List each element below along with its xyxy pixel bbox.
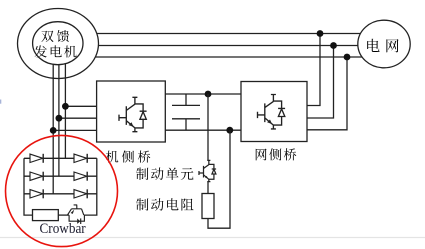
label 网侧桥 (256, 148, 297, 160)
wire DC bus negative (165, 129, 241, 131)
wire rotor branch to machine box 1 (65, 105, 96, 107)
resistor crowbar R (33, 210, 59, 221)
node rotor junction 1 (62, 103, 69, 110)
wire crowbar row 1 (24, 157, 97, 159)
generator G1 outer circle (18, 9, 99, 79)
diode D5 (30, 190, 43, 198)
transistor brake IGBT 制动单元 (199, 160, 216, 181)
resistor brake R (202, 194, 214, 219)
decorative edge mark (0, 100, 1, 104)
wire stator phase B (90, 45, 384, 47)
wire rotor phase 2 (58, 52, 60, 176)
wire DC+ to brake IGBT (207, 94, 209, 161)
converter machine-side box (97, 81, 166, 142)
label 电网 (367, 39, 398, 53)
label 机侧桥 (106, 150, 150, 162)
capacitor C1 (172, 94, 200, 130)
wire DC bus positive (165, 93, 241, 95)
diode D6 (74, 190, 87, 198)
node rotor junction 2 (56, 115, 63, 122)
generator G1 inner circle (33, 22, 83, 65)
diode D4 (74, 172, 87, 180)
wire resistor to switch (58, 214, 69, 216)
wire rotor branch to machine box 2 (59, 117, 97, 119)
wire resistor to DC- (208, 130, 230, 228)
node DC- junction (226, 127, 233, 134)
converter grid-side box (241, 82, 307, 142)
thyristor crowbar switch (67, 205, 84, 224)
node DC+ junction (205, 91, 212, 98)
wire brake IGBT to resistor (207, 182, 209, 194)
label 制动电阻 (136, 198, 194, 211)
wire crowbar row 2 (24, 175, 97, 177)
wire grid-converter phase C (307, 57, 347, 130)
node junction C (344, 54, 351, 61)
svg-text:Crowbar: Crowbar (40, 221, 86, 237)
diode D3 (30, 172, 43, 180)
transistor IGBT machine-side bridge (119, 97, 147, 131)
wire crowbar right rail (84, 158, 97, 215)
wire stator phase A (90, 33, 384, 35)
node rotor junction 3 (50, 127, 57, 134)
label generator 双馈发电机 (35, 30, 77, 58)
wire rotor branch to machine box 3 (53, 129, 96, 131)
diode D1 (30, 154, 43, 162)
label 制动单元 (136, 168, 193, 181)
wire stator phase C (90, 56, 384, 58)
diode D2 (74, 154, 87, 162)
wire crowbar left rail (24, 158, 33, 215)
transistor IGBT grid-side bridge (258, 95, 286, 129)
node junction B (330, 42, 337, 49)
grid circle 电网 (358, 20, 410, 68)
wire crowbar row 3 (24, 193, 97, 195)
wire grid-converter phase B (307, 46, 334, 119)
wire rotor phase 3 (64, 52, 66, 158)
wire grid-converter phase A (307, 34, 320, 106)
wire rotor phase 1 (52, 52, 54, 194)
node junction A (317, 30, 324, 37)
crowbar highlight red ellipse (6, 135, 118, 246)
decorative faint page rule (0, 237, 425, 239)
